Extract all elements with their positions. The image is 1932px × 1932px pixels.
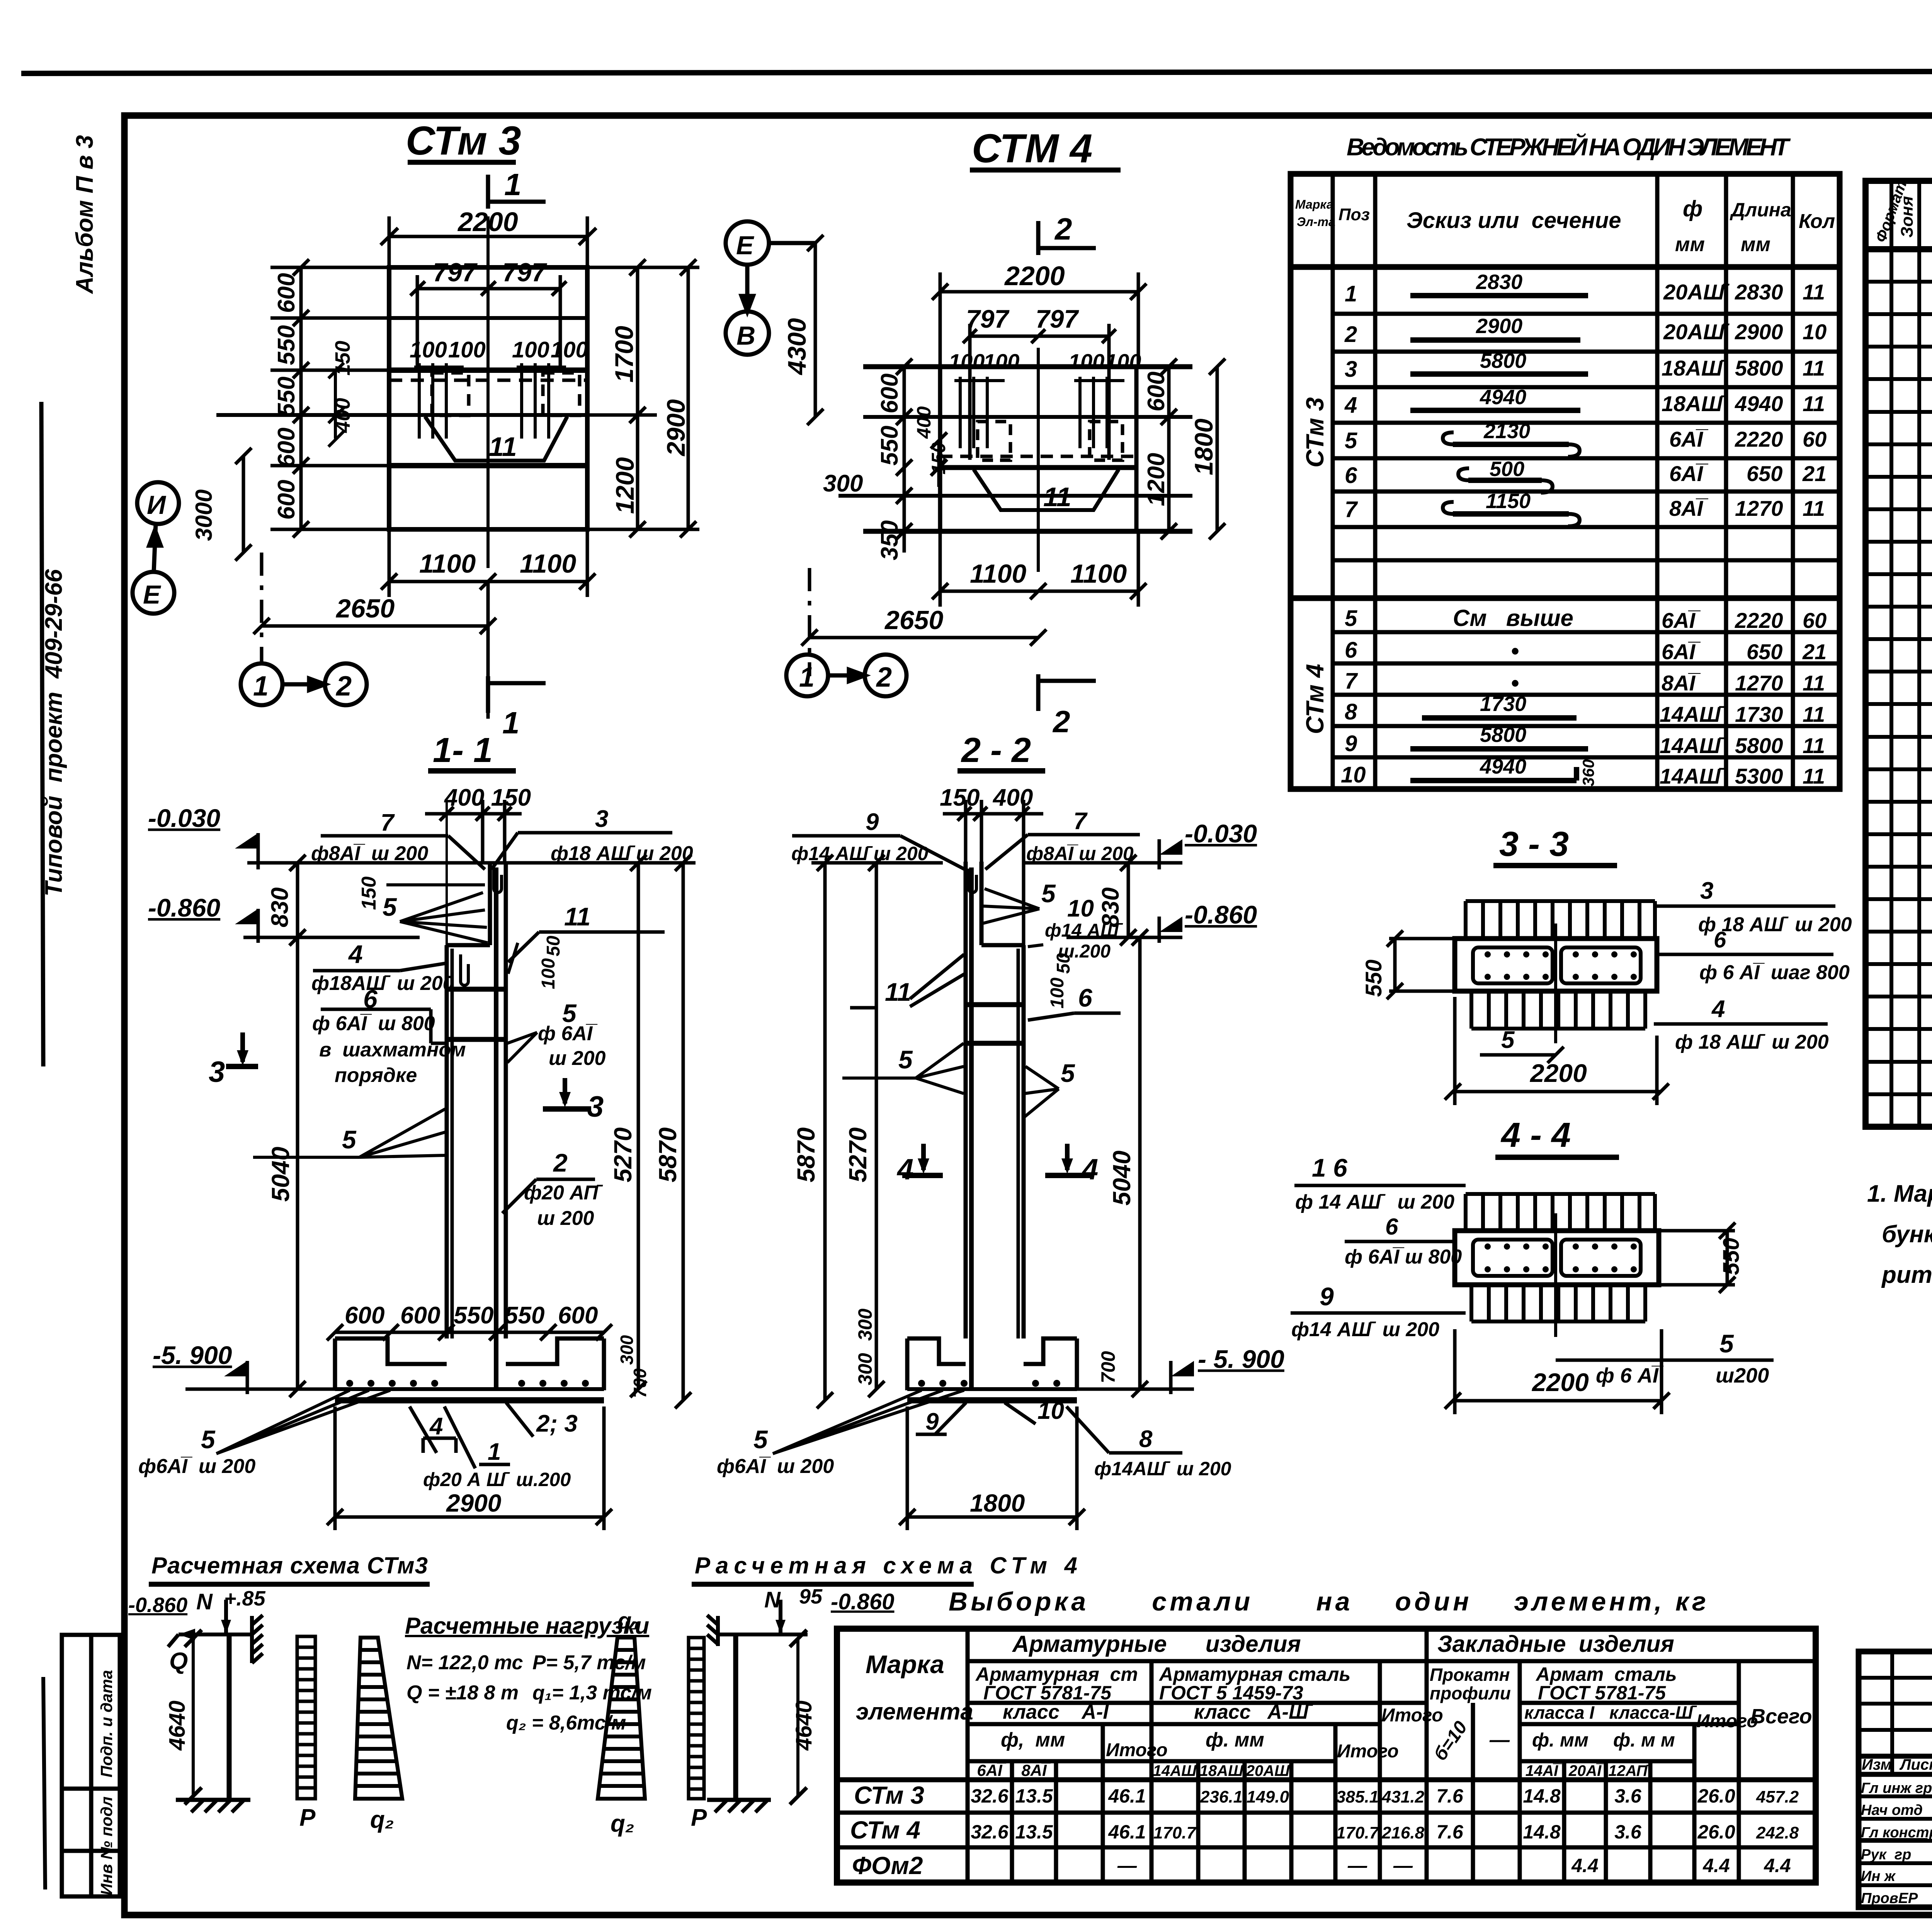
svg-text:мм: мм [1741, 233, 1770, 256]
svg-text:4.4: 4.4 [1702, 1855, 1730, 1876]
svg-text:11: 11 [564, 902, 591, 931]
svg-text:2; 3: 2; 3 [536, 1410, 578, 1437]
svg-text:8АI̅: 8АI̅ [1021, 1761, 1051, 1779]
q2 trapezoid left [355, 1638, 402, 1799]
svg-text:6АI̅: 6АI̅ [977, 1761, 1007, 1779]
left dim chain CTm4 [896, 359, 947, 553]
svg-text:600: 600 [1143, 372, 1170, 412]
sketches CTm3 [1410, 296, 1588, 514]
bottom dims [253, 529, 595, 719]
svg-text:Поз: Поз [1338, 205, 1370, 224]
svg-text:5: 5 [898, 1045, 913, 1074]
svg-text:P: P [691, 1804, 707, 1831]
svg-text:1: 1 [504, 167, 522, 202]
svg-text:ф8АI̅ ш 200: ф8АI̅ ш 200 [1026, 843, 1134, 864]
svg-text:ГОСТ 5781-75: ГОСТ 5781-75 [1538, 1682, 1666, 1704]
svg-text:Гл инж гр: Гл инж гр [1861, 1780, 1932, 1796]
svg-text:2130: 2130 [1483, 420, 1530, 443]
svg-text:797: 797 [966, 304, 1010, 333]
svg-text:14АШ̄: 14АШ̄ [1660, 764, 1726, 788]
svg-text:1700: 1700 [610, 326, 638, 383]
svg-text:—: — [1489, 1729, 1510, 1751]
svg-text:СТм 3: СТм 3 [406, 118, 521, 163]
svg-text:8: 8 [1139, 1426, 1153, 1452]
svg-text:Альбом П в 3: Альбом П в 3 [71, 135, 98, 294]
svg-text:4: 4 [429, 1413, 443, 1440]
svg-text:—: — [1117, 1855, 1137, 1876]
svg-text:21: 21 [1802, 461, 1827, 486]
svg-text:11: 11 [489, 432, 517, 462]
svg-text:150: 150 [358, 876, 380, 910]
svg-text:Марка: Марка [866, 1650, 944, 1679]
svg-text:300: 300 [823, 470, 863, 497]
svg-text:q₁: q₁ [617, 1608, 640, 1634]
svg-text:Гл констр: Гл констр [1861, 1825, 1932, 1841]
svg-text:- 5. 900: - 5. 900 [1198, 1345, 1284, 1373]
svg-text:Е: Е [736, 231, 755, 260]
svg-text:ф18 АШ̄ ш 200: ф18 АШ̄ ш 200 [551, 842, 693, 865]
svg-text:1: 1 [253, 671, 269, 702]
svg-text:N: N [196, 1589, 213, 1614]
svg-text:550: 550 [505, 1302, 544, 1329]
svg-text:3 - 3: 3 - 3 [1499, 825, 1569, 864]
svg-text:2 - 2: 2 - 2 [961, 731, 1031, 770]
svg-text:Закладные изделия: Закладные изделия [1437, 1631, 1674, 1657]
svg-text:ф. мм: ф. мм [1206, 1729, 1264, 1751]
svg-text:Нач отд: Нач отд [1861, 1802, 1923, 1818]
svg-text:300: 300 [854, 1308, 876, 1341]
svg-text:ф. мм: ф. мм [1532, 1729, 1588, 1751]
svg-text:149.0: 149.0 [1247, 1787, 1289, 1806]
section mark 1 top [488, 175, 546, 209]
svg-text:9: 9 [1345, 731, 1357, 756]
svg-text:Ин ж: Ин ж [1861, 1868, 1896, 1884]
svg-text:3.6: 3.6 [1614, 1821, 1642, 1843]
svg-text:18АШ̄: 18АШ̄ [1662, 356, 1728, 380]
svg-text:4: 4 [1344, 393, 1357, 418]
svg-text:2220: 2220 [1735, 608, 1783, 633]
svg-text:3: 3 [1345, 357, 1357, 382]
svg-text:Длина: Длина [1730, 199, 1791, 221]
svg-text:ф 6 АI̅: ф 6 АI̅ [1596, 1364, 1663, 1387]
svg-text:21: 21 [1802, 639, 1827, 664]
svg-text:класс А-Ш̄: класс А-Ш̄ [1194, 1701, 1313, 1723]
svg-text:2830: 2830 [1476, 270, 1522, 294]
svg-text:1100: 1100 [419, 549, 476, 578]
svg-text:5300: 5300 [1735, 764, 1783, 788]
svg-text:700: 700 [630, 1368, 650, 1398]
section mark 2 bottom [1038, 674, 1096, 711]
svg-text:10: 10 [1037, 1398, 1064, 1424]
svg-text:600: 600 [345, 1302, 384, 1329]
svg-text:550: 550 [1719, 1238, 1744, 1275]
left sidebar stamp boxes [62, 1635, 120, 1896]
svg-text:60: 60 [1803, 608, 1827, 633]
svg-text:ф6АI̅ ш 200: ф6АI̅ ш 200 [717, 1455, 834, 1478]
svg-text:6: 6 [1078, 983, 1093, 1012]
svg-text:2200: 2200 [1529, 1059, 1587, 1087]
svg-text:ф 6АI̅ ш 800: ф 6АI̅ ш 800 [1345, 1246, 1462, 1268]
svg-text:1- 1: 1- 1 [433, 731, 493, 770]
svg-text:2830: 2830 [1735, 280, 1783, 304]
svg-text:8АI̅: 8АI̅ [1669, 496, 1709, 520]
svg-text:5: 5 [1719, 1329, 1734, 1358]
svg-text:Арматурные изделия: Арматурные изделия [1012, 1631, 1301, 1657]
svg-text:9: 9 [866, 809, 879, 835]
svg-text:400: 400 [913, 406, 935, 439]
svg-text:100: 100 [551, 337, 588, 362]
svg-text:ф. м м: ф. м м [1613, 1729, 1675, 1751]
svg-text:Поз.: Поз. [1930, 200, 1932, 236]
svg-text:4640: 4640 [165, 1701, 190, 1751]
wall 2-2 [966, 862, 1024, 1389]
svg-text:5: 5 [342, 1125, 357, 1154]
svg-text:100: 100 [949, 349, 985, 374]
svg-text:100: 100 [1047, 978, 1068, 1009]
svg-text:Расчетная схема СТм3: Расчетная схема СТм3 [151, 1553, 428, 1578]
svg-text:11: 11 [1803, 733, 1825, 758]
svg-text:11: 11 [1803, 496, 1825, 520]
svg-text:ГОСТ 5 1459-73: ГОСТ 5 1459-73 [1159, 1682, 1303, 1704]
svg-text:6: 6 [1714, 927, 1726, 952]
svg-text:385.1: 385.1 [1336, 1787, 1379, 1806]
svg-text:Е: Е [143, 580, 162, 609]
svg-text:Эл-та: Эл-та [1297, 215, 1335, 229]
left dim chain [247, 259, 389, 537]
svg-text:•: • [1511, 638, 1519, 664]
svg-text:6АI̅: 6АI̅ [1669, 461, 1709, 486]
svg-text:500: 500 [1490, 457, 1524, 481]
axis circles 1 2 [241, 663, 367, 705]
svg-text:мм: мм [1675, 233, 1705, 256]
svg-text:26.0: 26.0 [1697, 1785, 1735, 1807]
svg-text:Зоня: Зоня [1898, 196, 1917, 238]
svg-text:11: 11 [1803, 702, 1825, 726]
svg-text:100: 100 [1105, 349, 1141, 374]
svg-text:600: 600 [273, 428, 300, 468]
svg-text:ш200: ш200 [1716, 1364, 1769, 1387]
wall outline plan CTm4 [838, 348, 1192, 572]
svg-text:2200: 2200 [1004, 261, 1065, 291]
svg-text:5870: 5870 [654, 1128, 682, 1182]
svg-text:Выборка стали на: Выборка стали на один элемент, кг [949, 1587, 1706, 1616]
svg-text:5270: 5270 [609, 1128, 637, 1182]
svg-text:600: 600 [876, 374, 903, 413]
svg-text:4940: 4940 [1735, 391, 1783, 416]
svg-text:20АШ̄: 20АШ̄ [1663, 280, 1730, 304]
svg-text:5: 5 [1501, 1027, 1515, 1053]
svg-text:2900: 2900 [662, 399, 690, 457]
svg-text:5: 5 [383, 893, 397, 921]
svg-text:ф: ф [1683, 196, 1702, 221]
svg-text:6АI̅: 6АI̅ [1662, 639, 1701, 664]
svg-text:11: 11 [1803, 356, 1825, 380]
svg-text:1100: 1100 [520, 549, 576, 578]
svg-text:5040: 5040 [267, 1147, 294, 1202]
svg-text:2650: 2650 [884, 605, 943, 635]
svg-text:32.6: 32.6 [971, 1821, 1009, 1843]
svg-text:класса I̅: класса I̅ [1524, 1702, 1599, 1723]
svg-text:360: 360 [1579, 759, 1597, 786]
svg-text:11: 11 [1803, 280, 1825, 304]
svg-text:N= 122,0 тс: N= 122,0 тс [406, 1651, 523, 1674]
svg-text:600: 600 [273, 480, 300, 520]
svg-text:1270: 1270 [1735, 496, 1783, 520]
svg-text:242.8: 242.8 [1756, 1823, 1799, 1842]
svg-text:431.2: 431.2 [1381, 1787, 1425, 1806]
svg-text:14.8: 14.8 [1523, 1785, 1561, 1807]
svg-text:ф, мм: ф, мм [1001, 1729, 1065, 1751]
svg-text:12АП̄: 12АП̄ [1608, 1762, 1651, 1779]
svg-text:ф14 АШ̄: ф14 АШ̄ [1045, 920, 1123, 941]
svg-text:Инв № подл: Инв № подл [97, 1796, 116, 1895]
svg-text:Всего: Всего [1750, 1705, 1812, 1728]
svg-text:1150: 1150 [1486, 490, 1531, 513]
svg-text:13.5: 13.5 [1015, 1821, 1053, 1843]
svg-text:Типовой проект 409-29-66: Типовой проект 409-29-66 [41, 569, 67, 896]
CTm3 circles E B right side [0, 0, 2, 2]
svg-text:Расчетная схема СТм 4: Расчетная схема СТм 4 [695, 1553, 1077, 1578]
svg-text:797: 797 [502, 258, 548, 287]
svg-text:1200: 1200 [611, 457, 639, 514]
svg-text:1730: 1730 [1480, 692, 1526, 716]
footing 1-1 [335, 1338, 604, 1400]
svg-text:в шахматном: в шахматном [319, 1039, 466, 1061]
svg-text:2650: 2650 [335, 594, 395, 623]
svg-text:7: 7 [381, 810, 395, 836]
svg-text:7.6: 7.6 [1436, 1821, 1464, 1843]
svg-text:Итого: Итого [1337, 1741, 1399, 1762]
svg-text:профили: профили [1430, 1683, 1511, 1703]
svg-text:3.6: 3.6 [1614, 1785, 1642, 1807]
svg-text:Кол: Кол [1799, 210, 1835, 233]
section mark 1 bottom [488, 676, 546, 713]
svg-text:4: 4 [1081, 1153, 1098, 1186]
svg-text:5800: 5800 [1735, 356, 1783, 380]
svg-text:Q: Q [169, 1648, 188, 1675]
svg-text:элемента: элемента [856, 1699, 973, 1725]
svg-text:ф14 АШ̄ ш 200: ф14 АШ̄ ш 200 [1291, 1318, 1439, 1341]
svg-text:20АШ̄: 20АШ̄ [1246, 1762, 1294, 1779]
svg-text:300: 300 [617, 1335, 637, 1365]
svg-text:2900: 2900 [1476, 315, 1522, 338]
svg-text:4: 4 [1711, 996, 1725, 1022]
svg-text:100: 100 [448, 337, 486, 362]
svg-text:300: 300 [854, 1353, 876, 1385]
svg-text:650: 650 [1747, 639, 1782, 664]
svg-text:7: 7 [1073, 808, 1088, 835]
svg-text:600: 600 [273, 273, 300, 313]
svg-text:216.8: 216.8 [1381, 1823, 1425, 1842]
axis circles 1 2 [786, 655, 906, 696]
svg-text:100: 100 [538, 958, 559, 989]
svg-text:3: 3 [209, 1056, 225, 1088]
svg-text:Подп. и дата: Подп. и дата [97, 1670, 116, 1777]
svg-text:1270: 1270 [1735, 671, 1783, 695]
svg-text:6АI̅: 6АI̅ [1662, 608, 1701, 633]
svg-text:4: 4 [348, 940, 363, 968]
svg-text:ф18АШ̄ ш 200: ф18АШ̄ ш 200 [311, 972, 454, 995]
svg-text:ПровЕР: ПровЕР [1861, 1890, 1918, 1906]
svg-text:-0.860: -0.860 [1185, 900, 1257, 929]
svg-text:50: 50 [543, 935, 564, 956]
svg-text:8: 8 [1345, 699, 1357, 724]
svg-text:4.4: 4.4 [1571, 1855, 1599, 1876]
svg-text:ф20 АП̄: ф20 АП̄ [524, 1182, 603, 1204]
axis circles E B [726, 221, 815, 355]
svg-text:9: 9 [1320, 1282, 1334, 1311]
svg-text:•: • [1511, 670, 1519, 696]
svg-text:ф 6АI̅: ф 6АI̅ [538, 1022, 597, 1045]
svg-text:2: 2 [876, 662, 892, 693]
svg-text:10: 10 [1341, 762, 1366, 787]
svg-text:150: 150 [928, 442, 949, 474]
svg-text:100: 100 [512, 337, 549, 362]
svg-text:5870: 5870 [792, 1128, 820, 1182]
svg-text:-0.030: -0.030 [148, 804, 220, 832]
svg-text:q₂: q₂ [611, 1810, 634, 1837]
svg-text:бункера и привязку закл: бункера и привязку закладных изделий смо… [1882, 1221, 1932, 1248]
svg-text:550: 550 [454, 1302, 493, 1329]
footing 2-2 [907, 1338, 1077, 1400]
svg-text:13.5: 13.5 [1015, 1785, 1053, 1807]
svg-text:14АШ̄: 14АШ̄ [1660, 733, 1726, 758]
svg-text:Ведомость СТЕРЖНЕЙ НА ОДИН ЭЛЕ: Ведомость СТЕРЖНЕЙ НА ОДИН ЭЛЕМЕНТ [1347, 133, 1791, 161]
svg-text:ф14 АШ̄ ш 200: ф14 АШ̄ ш 200 [791, 843, 929, 864]
svg-text:ф6АI̅ ш 200: ф6АI̅ ш 200 [138, 1455, 255, 1478]
svg-text:N: N [764, 1587, 781, 1612]
svg-text:Эскиз или сечение: Эскиз или сечение [1406, 208, 1621, 233]
svg-text:170.7: 170.7 [1336, 1823, 1380, 1842]
svg-text:600: 600 [400, 1302, 440, 1329]
svg-text:11: 11 [885, 978, 912, 1006]
svg-text:5270: 5270 [844, 1128, 872, 1182]
svg-text:100: 100 [410, 337, 447, 362]
svg-text:2200: 2200 [1531, 1368, 1589, 1396]
svg-text:2: 2 [553, 1148, 568, 1177]
svg-text:2220: 2220 [1735, 427, 1783, 451]
right dim chains [587, 259, 699, 537]
svg-text:ф14АШ̄ ш 200: ф14АШ̄ ш 200 [1094, 1458, 1231, 1480]
svg-text:650: 650 [1747, 461, 1782, 486]
svg-text:830: 830 [267, 888, 293, 927]
q2 trapezoid right [598, 1638, 645, 1799]
svg-text:4940: 4940 [1480, 386, 1526, 409]
svg-text:7: 7 [1345, 668, 1358, 694]
svg-text:Рук гр: Рук гр [1861, 1847, 1911, 1863]
svg-text:СТм 3: СТм 3 [854, 1781, 924, 1809]
svg-text:6АI̅: 6АI̅ [1669, 427, 1709, 451]
svg-text:1: 1 [799, 662, 815, 693]
svg-text:700: 700 [1097, 1351, 1119, 1383]
wall outline plan [216, 216, 587, 568]
svg-text:550: 550 [273, 377, 300, 417]
svg-text:рите лист КЖ-6.: рите лист КЖ-6. [1881, 1262, 1932, 1288]
P band right [689, 1638, 704, 1799]
svg-text:Прокатн: Прокатн [1430, 1665, 1510, 1685]
svg-text:ф 6 АI̅ шаг 800: ф 6 АI̅ шаг 800 [1699, 961, 1850, 984]
svg-text:класса-Ш̄: класса-Ш̄ [1609, 1702, 1697, 1723]
svg-text:СТм 4: СТм 4 [850, 1816, 920, 1844]
svg-text:-0.860: -0.860 [148, 893, 220, 922]
svg-text:18АШ̄: 18АШ̄ [1662, 391, 1728, 416]
right dim chain CTm4 [1161, 359, 1225, 539]
svg-text:q₂: q₂ [370, 1806, 394, 1833]
svg-text:3000: 3000 [191, 490, 217, 541]
svg-text:-0.860: -0.860 [831, 1589, 894, 1614]
svg-text:ф8АI̅ ш 200: ф8АI̅ ш 200 [311, 842, 428, 865]
svg-text:550: 550 [876, 426, 903, 466]
svg-text:457.2: 457.2 [1756, 1787, 1799, 1806]
svg-text:11: 11 [1803, 391, 1825, 416]
svg-text:СТм 4: СТм 4 [1301, 664, 1329, 734]
svg-text:1800: 1800 [1189, 418, 1218, 475]
svg-text:5800: 5800 [1735, 733, 1783, 758]
svg-text:Q = ±18 8 т: Q = ±18 8 т [406, 1682, 519, 1704]
svg-text:+.85: +.85 [224, 1587, 266, 1610]
svg-text:18АШ̄: 18АШ̄ [1200, 1762, 1247, 1779]
svg-text:5800: 5800 [1480, 349, 1526, 372]
svg-text:1: 1 [1345, 281, 1357, 306]
svg-text:100: 100 [1068, 349, 1104, 374]
svg-text:Итого: Итого [1381, 1705, 1443, 1726]
svg-text:4300: 4300 [782, 318, 811, 376]
svg-text:Лист: Лист [1899, 1756, 1932, 1773]
svg-text:4.4: 4.4 [1764, 1855, 1791, 1876]
svg-text:5800: 5800 [1480, 723, 1526, 747]
svg-text:5: 5 [1345, 428, 1357, 453]
svg-text:95: 95 [799, 1585, 823, 1608]
svg-text:26.0: 26.0 [1697, 1821, 1735, 1843]
svg-text:Расчетные нагрузки: Расчетные нагрузки [405, 1613, 649, 1639]
svg-text:Итого: Итого [1106, 1740, 1168, 1760]
svg-text:6: 6 [1385, 1214, 1398, 1240]
svg-text:порядке: порядке [335, 1064, 417, 1087]
section mark 2 top [1038, 221, 1096, 255]
P band left [297, 1636, 315, 1799]
svg-text:60: 60 [1803, 427, 1827, 451]
svg-text:—: — [1393, 1855, 1413, 1876]
svg-text:СТМ 4: СТМ 4 [972, 126, 1092, 171]
svg-text:10: 10 [1067, 895, 1094, 922]
svg-text:797: 797 [1036, 304, 1079, 333]
svg-text:ГОСТ 5781-75: ГОСТ 5781-75 [983, 1682, 1112, 1704]
svg-text:2900: 2900 [446, 1489, 501, 1517]
svg-text:32.6: 32.6 [971, 1785, 1009, 1807]
svg-text:Изм: Изм [1862, 1756, 1892, 1773]
svg-text:3: 3 [1700, 878, 1713, 904]
svg-text:Итого: Итого [1696, 1711, 1758, 1731]
svg-text:-0.030: -0.030 [1185, 819, 1257, 848]
svg-text:1: 1 [488, 1439, 501, 1465]
svg-text:20АШ̄: 20АШ̄ [1663, 320, 1730, 344]
svg-text:5: 5 [753, 1425, 768, 1454]
svg-text:8АI̅: 8АI̅ [1662, 671, 1701, 695]
svg-text:-0.860: -0.860 [128, 1594, 187, 1617]
svg-text:7.6: 7.6 [1436, 1785, 1464, 1807]
svg-text:11: 11 [1803, 764, 1825, 788]
axis circles И Е left [133, 482, 179, 614]
bottom dims CTm4 [801, 531, 1146, 676]
svg-text:6: 6 [1345, 463, 1357, 488]
svg-text:1200: 1200 [1143, 453, 1170, 506]
svg-text:1100: 1100 [1070, 559, 1127, 588]
svg-text:2: 2 [335, 671, 352, 702]
svg-text:класс А-I̅: класс А-I̅ [1003, 1701, 1114, 1723]
svg-text:ФОм2: ФОм2 [852, 1852, 923, 1879]
svg-text:—: — [1347, 1855, 1367, 1876]
svg-text:ш 200: ш 200 [549, 1047, 606, 1070]
